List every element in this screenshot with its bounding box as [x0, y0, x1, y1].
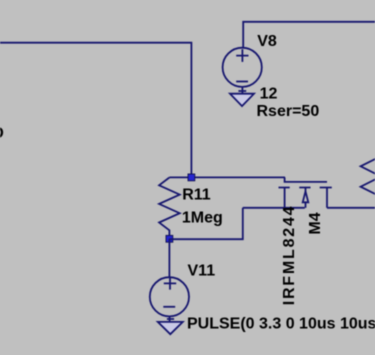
wire: [243, 22, 375, 48]
voltage source V8: [223, 48, 262, 87]
ground: [158, 316, 183, 334]
voltage source V11: [150, 277, 189, 316]
svg-text:D: D: [0, 125, 4, 142]
resistor (partial at right edge): [361, 158, 375, 197]
transistor M4 bulk arrow: [303, 188, 309, 208]
svg-text:R11: R11: [182, 186, 211, 203]
wire: [0, 43, 191, 178]
svg-text:V8: V8: [257, 33, 277, 50]
wire: [327, 207, 375, 209]
svg-text:PULSE(0 3.3 0 10us 10us: PULSE(0 3.3 0 10us 10us: [187, 316, 375, 333]
transistor M4 channel: [279, 187, 332, 189]
wire: [168, 239, 170, 277]
transistor M4 source lead: [284, 188, 286, 208]
svg-text:IRFML8244: IRFML8244: [281, 205, 298, 306]
junction: [166, 235, 173, 242]
svg-text:V11: V11: [188, 263, 216, 280]
svg-text:12: 12: [260, 86, 278, 103]
svg-text:1Meg: 1Meg: [182, 210, 223, 227]
wire: [169, 176, 285, 178]
wire: [243, 207, 305, 209]
ground: [230, 87, 254, 107]
resistor R11: [159, 178, 180, 239]
junction: [188, 174, 195, 181]
svg-text:M4: M4: [307, 212, 324, 234]
wire: [169, 208, 242, 239]
svg-text:Rser=50: Rser=50: [257, 103, 320, 120]
transistor M4 gate: [285, 177, 327, 182]
transistor M4 drain lead: [326, 188, 328, 208]
